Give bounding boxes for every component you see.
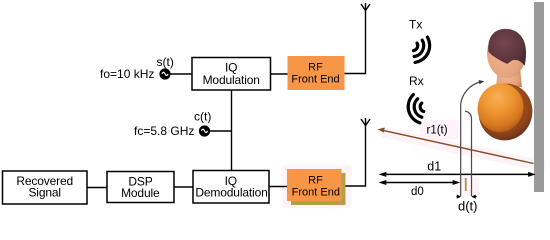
svg-text:d(t): d(t): [458, 199, 478, 213]
svg-text:s(t): s(t): [157, 55, 174, 69]
svg-text:d0: d0: [411, 186, 424, 198]
svg-text:Modulation: Modulation: [203, 73, 260, 87]
svg-text:fc=5.8 GHz: fc=5.8 GHz: [134, 124, 194, 138]
svg-text:Tx: Tx: [409, 18, 422, 32]
svg-text:RF: RF: [308, 61, 323, 73]
svg-text:Signal: Signal: [28, 186, 60, 200]
svg-text:Module: Module: [121, 186, 160, 200]
svg-text:d1: d1: [427, 160, 441, 174]
svg-text:Rx: Rx: [409, 74, 424, 88]
svg-text:c(t): c(t): [194, 109, 211, 123]
svg-text:Front End: Front End: [292, 187, 340, 199]
svg-text:Front End: Front End: [291, 74, 339, 86]
svg-text:fo=10 kHz: fo=10 kHz: [100, 67, 154, 81]
svg-text:Demodulation: Demodulation: [195, 185, 267, 199]
svg-text:r1(t): r1(t): [427, 125, 448, 137]
svg-text:RF: RF: [308, 174, 323, 186]
